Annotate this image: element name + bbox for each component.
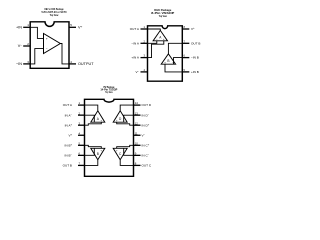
svg-text:3: 3 (27, 60, 29, 64)
op-amp C triangle (113, 148, 127, 159)
wire pin2 to inverting input A (85, 115, 95, 122)
svg-text:1: 1 (27, 23, 29, 27)
wire output B to pin7 (85, 160, 98, 166)
package U3 outline with pin-1 notch (85, 99, 134, 176)
title: DBV or DCK package (42, 7, 67, 17)
svg-text:IN A+: IN A+ (65, 123, 73, 127)
svg-text:+IN B: +IN B (191, 70, 199, 74)
wire pin12 to noninverting input D (117, 122, 134, 125)
wire pin9 to inverting input C (124, 148, 134, 155)
op-amp A triangle (91, 111, 105, 122)
svg-text:−IN: −IN (16, 62, 22, 66)
wire pin5 to noninverting input B (165, 64, 182, 72)
wire pin6 to inverting input B (174, 58, 183, 65)
svg-text:−: − (94, 149, 96, 152)
svg-text:IN C−: IN C− (142, 153, 150, 157)
svg-text:10: 10 (135, 141, 139, 145)
svg-text:Top View: Top View (105, 90, 113, 94)
wire pin3 to noninverting input A (85, 122, 102, 125)
pin 1 lead (141, 28, 148, 30)
svg-text:B: B (97, 152, 99, 156)
wire pin14 to output D (120, 105, 133, 111)
pin 3 lead (78, 124, 85, 126)
wire pin5 to noninverting input B (85, 145, 102, 148)
pin 7 lead (182, 42, 189, 44)
pin 14 lead (134, 104, 141, 106)
package U2 outline with pin-1 notch (148, 26, 183, 81)
svg-text:14: 14 (135, 101, 139, 105)
svg-text:+: + (116, 149, 118, 152)
pin 11 lead (134, 134, 141, 136)
pin 7 lead (78, 164, 85, 166)
pin 10 lead (134, 144, 141, 146)
svg-text:V+: V+ (68, 133, 72, 137)
pin 3 lead (23, 63, 30, 65)
pin 8 lead (134, 164, 141, 166)
wire pin1 to noninverting input (30, 27, 43, 38)
svg-text:Top View: Top View (50, 13, 59, 17)
svg-text:A: A (159, 36, 162, 40)
pin 2 lead (78, 114, 85, 116)
wire pin3 to noninverting input A (148, 41, 164, 58)
wire output B to pin7 (168, 43, 182, 54)
op-amp B triangle (161, 54, 175, 64)
svg-text:V+: V+ (191, 27, 195, 31)
svg-text:IN B−: IN B− (65, 153, 73, 157)
pin 6 lead (78, 154, 85, 156)
svg-text:12: 12 (135, 121, 139, 125)
svg-text:C: C (119, 152, 122, 156)
svg-text:IN D+: IN D+ (142, 123, 150, 127)
pin 5 lead (69, 26, 76, 28)
svg-text:OUT C: OUT C (142, 164, 152, 168)
op-amp D triangle (113, 111, 127, 122)
svg-text:OUT A: OUT A (63, 103, 73, 107)
title: PW package (100, 85, 117, 94)
svg-text:V−: V− (18, 43, 23, 48)
wire output C to pin8 (120, 160, 133, 166)
pin 2 lead (23, 45, 30, 47)
svg-text:IN C+: IN C+ (142, 143, 150, 147)
pin 2 lead (141, 42, 148, 44)
svg-text:Top View: Top View (159, 14, 167, 18)
pin 4 lead (141, 71, 148, 73)
svg-text:D: D (119, 117, 122, 121)
svg-text:V+: V+ (78, 25, 83, 30)
pin 13 lead (134, 114, 141, 116)
op-amp B triangle (91, 148, 105, 159)
svg-text:−: − (46, 47, 48, 51)
svg-text:B: B (167, 59, 169, 63)
wire pin2 to inverting input A (148, 41, 157, 44)
pin 6 lead (182, 57, 189, 59)
pin 4 lead (78, 134, 85, 136)
wire pin6 to inverting input B (85, 148, 95, 155)
pin 9 lead (134, 154, 141, 156)
svg-text:4: 4 (70, 60, 72, 64)
svg-text:5: 5 (70, 23, 72, 27)
wire pin1 to output A (148, 29, 161, 30)
svg-text:2: 2 (27, 42, 29, 46)
svg-text:V−: V− (142, 133, 146, 137)
svg-text:OUT A: OUT A (130, 27, 140, 31)
pin 5 lead (78, 144, 85, 146)
wire pin1 to output A (85, 105, 98, 111)
package U1 outline with pin-1 notch (30, 22, 69, 69)
pin 12 lead (134, 124, 141, 126)
svg-text:OUT B: OUT B (191, 41, 200, 45)
svg-text:+IN A: +IN A (131, 56, 140, 60)
wire pin10 to noninverting input C (117, 145, 134, 148)
svg-text:−IN B: −IN B (191, 56, 199, 60)
pin 1 lead (23, 26, 30, 28)
svg-text:−IN A: −IN A (131, 41, 140, 45)
svg-text:IN A−: IN A− (65, 113, 73, 117)
title: DGK package (151, 8, 174, 18)
pin 8 lead (182, 28, 189, 30)
svg-text:+: + (46, 37, 48, 41)
svg-text:OUT D: OUT D (142, 103, 152, 107)
pin 1 lead (78, 104, 85, 106)
svg-text:13: 13 (135, 111, 139, 115)
svg-text:11: 11 (135, 131, 138, 135)
svg-text:OUT B: OUT B (63, 164, 72, 168)
pin 4 lead (69, 63, 76, 65)
svg-text:OUTPUT: OUTPUT (78, 62, 94, 66)
op-amp A triangle (153, 30, 167, 40)
svg-text:A: A (97, 117, 100, 121)
wire pin13 to inverting input D (124, 115, 134, 122)
pin 3 lead (141, 57, 148, 59)
svg-text:V−: V− (135, 70, 139, 74)
svg-text:+IN: +IN (16, 26, 22, 30)
pin 5 lead (182, 71, 189, 73)
wire pin3 to inverting input (30, 49, 43, 64)
wire output to pin4 (60, 44, 69, 64)
op-amp A1 triangle (44, 34, 61, 54)
svg-text:IN D−: IN D− (142, 113, 150, 117)
svg-text:IN B+: IN B+ (65, 143, 73, 147)
